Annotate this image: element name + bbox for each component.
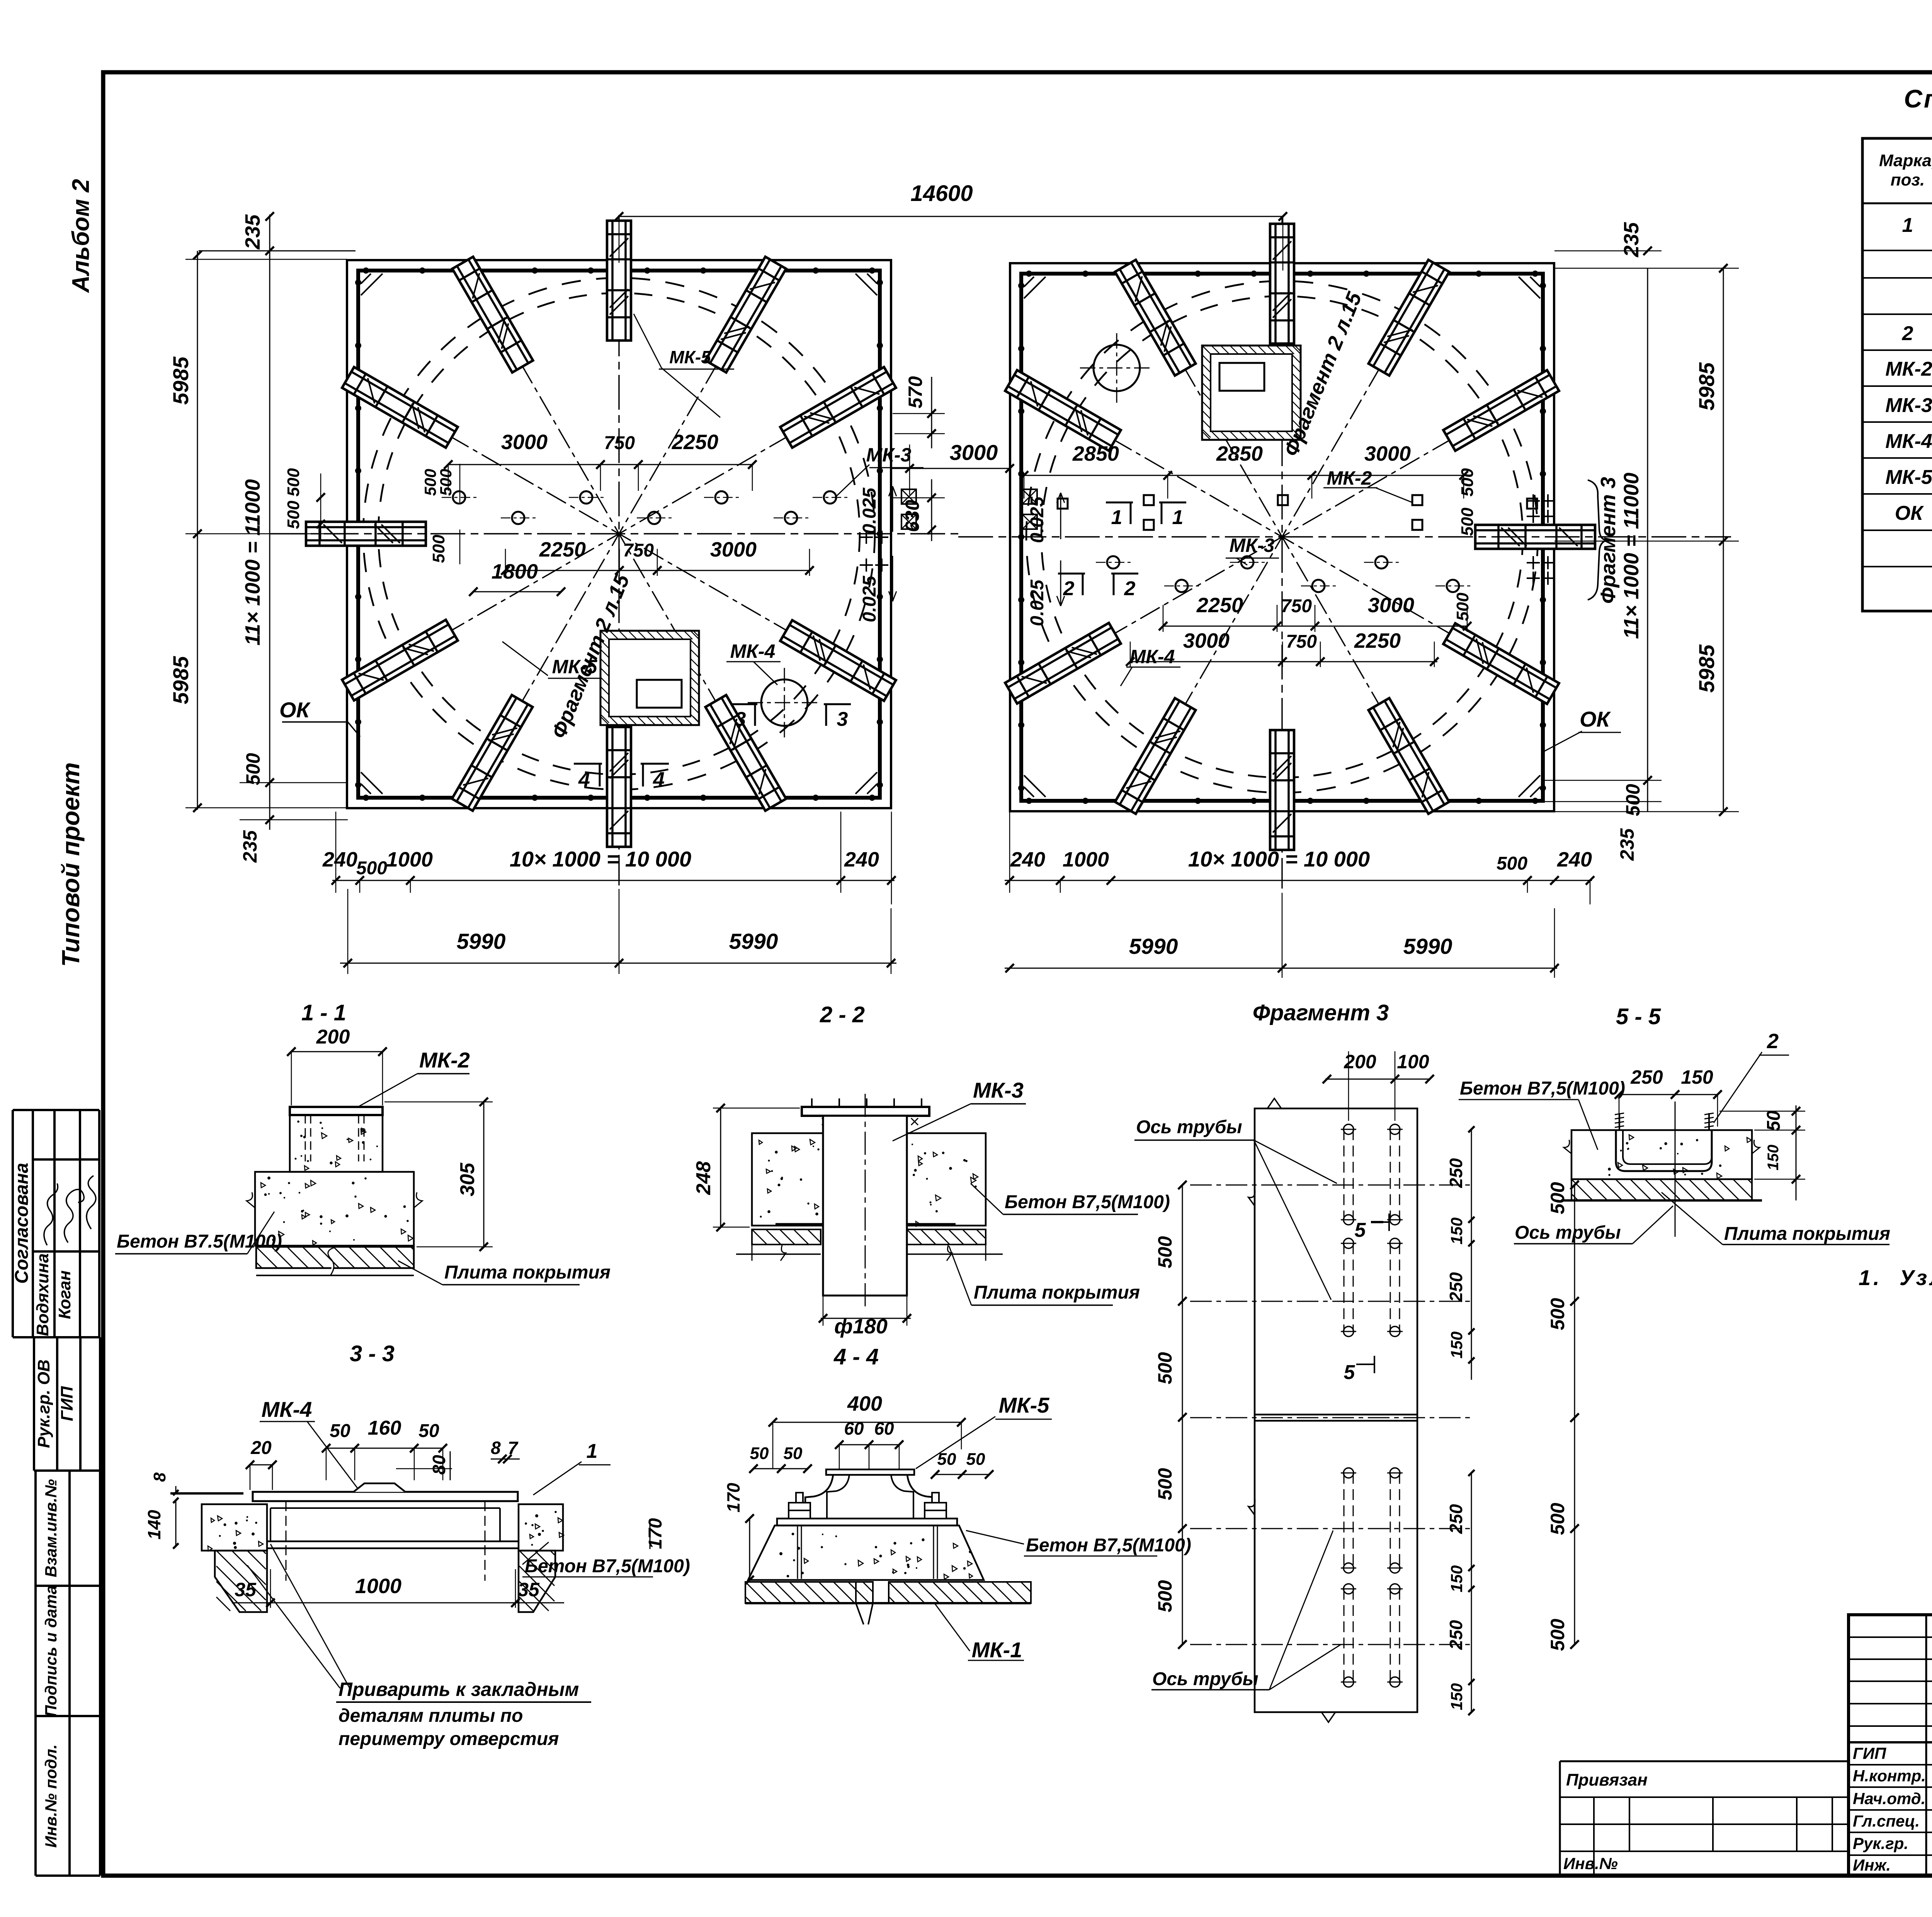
plan2: rail post МК-5 #10 xyxy=(1115,260,1196,375)
svg-text:500: 500 xyxy=(1154,1468,1176,1500)
svg-text:Фрагмент 3: Фрагмент 3 xyxy=(1597,477,1620,604)
plan2 section marks 2|2 xyxy=(1058,573,1085,575)
svg-text:500: 500 xyxy=(1458,468,1477,497)
section 3-3 top assembly plates xyxy=(253,1492,518,1501)
plan2: rail post МК-5 #4 xyxy=(1369,698,1449,814)
svg-text:500: 500 xyxy=(1453,592,1472,621)
plan1: rail post МК-5 #6 xyxy=(306,522,426,546)
svg-text:1: 1 xyxy=(1172,506,1184,529)
plan1: rail post МК-5 #5 xyxy=(342,367,457,448)
fragment 3 far dim 500 chain xyxy=(1574,1185,1575,1645)
svg-text:2250: 2250 xyxy=(672,431,718,454)
svg-text:235: 235 xyxy=(241,214,264,250)
svg-text:МК-3: МК-3 xyxy=(1230,535,1275,556)
svg-text:100: 100 xyxy=(1397,1051,1429,1073)
svg-text:500: 500 xyxy=(242,753,264,785)
between plans dim 570 xyxy=(931,377,932,448)
plan2: outer dashed circle xyxy=(1026,281,1538,793)
svg-text:Водяхина: Водяхина xyxy=(33,1253,52,1336)
svg-text:Взам.инв.№: Взам.инв.№ xyxy=(42,1479,60,1577)
plan2: outer square outline xyxy=(1010,263,1554,811)
fragment 3 bolt columns xyxy=(1344,1129,1345,1220)
svg-text:170: 170 xyxy=(723,1483,743,1512)
plan1 bottom dim chain 240/500/1000/10x1000 xyxy=(332,880,895,881)
section 2-2 left concrete block xyxy=(752,1133,823,1226)
plan2: rail post МК-5 #2 xyxy=(1115,698,1196,814)
plan1 top-left dim 235 xyxy=(199,250,355,252)
svg-text:500: 500 xyxy=(437,469,455,496)
svg-text:5990: 5990 xyxy=(457,929,506,954)
svg-text:5: 5 xyxy=(1344,1361,1355,1384)
fragment 3 left dim chain 500s xyxy=(1182,1185,1183,1645)
plan2: inner dashed circle xyxy=(1041,296,1523,778)
plan1 left dim line 5985/5985 xyxy=(197,251,198,810)
plan2 lower dim row 3000/750/2250 xyxy=(1130,661,1437,662)
svg-text:4: 4 xyxy=(653,768,665,791)
plan1 section marks 3|3 xyxy=(730,703,757,705)
svg-text:170: 170 xyxy=(645,1518,666,1549)
plan1 left dim 11x1000=11000 xyxy=(269,251,270,830)
svg-text:МК-3: МК-3 xyxy=(866,444,912,466)
plan1 horizontal centerline axis xyxy=(270,533,958,534)
plan1: МК-4 manhole circle xyxy=(761,679,808,726)
section 4-4 dim 400 xyxy=(773,1422,961,1423)
section 2-2 slab strips hatched xyxy=(752,1229,821,1245)
svg-text:35: 35 xyxy=(235,1579,257,1600)
svg-text:1000: 1000 xyxy=(355,1575,401,1598)
section 1-1 base break marks xyxy=(247,1192,255,1208)
svg-text:Инж.: Инж. xyxy=(1853,1856,1891,1874)
section 4-4 dim 60 60 xyxy=(839,1444,899,1445)
section 2-2 embedded plates xyxy=(776,1223,823,1226)
svg-text:1: 1 xyxy=(1111,506,1122,529)
section 3-3 anchor dashes xyxy=(286,1501,287,1581)
svg-text:500: 500 xyxy=(356,858,387,878)
svg-text:Инв.№: Инв.№ xyxy=(1563,1854,1618,1873)
plan1: rail post МК-5 #7 xyxy=(342,620,457,701)
svg-text:3000: 3000 xyxy=(950,440,998,465)
svg-text:500: 500 xyxy=(429,535,448,563)
svg-text:МК-2: МК-2 xyxy=(1885,358,1932,380)
svg-text:Альбом 2: Альбом 2 xyxy=(68,179,94,293)
plan1: rail post МК-5 #11 xyxy=(780,620,896,701)
fragment 3 break marks xyxy=(1267,1098,1281,1108)
svg-text:МК-4: МК-4 xyxy=(1130,646,1175,667)
between plans boxed-cross anchors xyxy=(901,489,916,504)
svg-text:250: 250 xyxy=(1446,1504,1466,1534)
section 2-2 right concrete block xyxy=(907,1133,986,1226)
fragment 3 beam strip xyxy=(1255,1108,1417,1712)
svg-text:Рук.гр. ОВ: Рук.гр. ОВ xyxy=(34,1359,53,1448)
plan1: inner square (roof slab edge) xyxy=(358,271,880,798)
svg-text:Типовой проект: Типовой проект xyxy=(57,762,85,967)
section 1-1 anchor bolt slots xyxy=(305,1115,306,1161)
svg-text:Нач.отд.: Нач.отд. xyxy=(1853,1789,1925,1808)
section 3-3 right concrete + pier xyxy=(519,1504,563,1551)
fragment 3 right dim chain 250/150 xyxy=(1471,1129,1472,1380)
svg-text:150: 150 xyxy=(1765,1145,1782,1171)
svg-text:Плита покрытия: Плита покрытия xyxy=(1724,1224,1890,1244)
plan2 bottom dim 5990+5990 xyxy=(1005,968,1557,969)
svg-text:3000: 3000 xyxy=(1364,442,1411,465)
svg-text:3000: 3000 xyxy=(501,431,548,454)
plan2 right dim 5985/5985 xyxy=(1723,268,1724,812)
plan2: rail post МК-5 #7 xyxy=(1443,370,1559,451)
svg-text:4: 4 xyxy=(578,768,590,791)
title block attachment mini table xyxy=(1560,1760,1849,1762)
svg-text:160: 160 xyxy=(368,1417,401,1439)
section 3-3 left concrete + pier xyxy=(202,1504,267,1551)
svg-text:Фрагмент 3: Фрагмент 3 xyxy=(1253,1000,1389,1025)
section 3-3 bottom dims 35/1000/35 xyxy=(232,1602,564,1604)
plan1: inner dashed circle xyxy=(378,293,860,775)
svg-text:50: 50 xyxy=(1764,1110,1784,1131)
svg-text:Марка,: Марка, xyxy=(1879,151,1932,170)
svg-text:МК-5: МК-5 xyxy=(1885,466,1932,489)
svg-text:500: 500 xyxy=(284,468,303,497)
svg-text:2: 2 xyxy=(1767,1030,1779,1053)
svg-text:500: 500 xyxy=(1547,1619,1568,1651)
svg-text:3000: 3000 xyxy=(1183,629,1230,652)
svg-text:200: 200 xyxy=(316,1026,350,1048)
fragment 3 axis lines xyxy=(1190,1185,1471,1186)
plan2: rail post МК-5 #6 xyxy=(1475,525,1595,549)
svg-text:2850: 2850 xyxy=(1216,442,1263,465)
fragment 3 mid joint xyxy=(1255,1414,1417,1416)
svg-text:8: 8 xyxy=(150,1472,169,1482)
section 4-4 dims 50 50 left xyxy=(753,1468,808,1469)
svg-text:60: 60 xyxy=(874,1418,894,1439)
section 1-1 upper concrete block xyxy=(290,1115,383,1172)
svg-text:750: 750 xyxy=(1281,596,1312,616)
svg-text:ф180: ф180 xyxy=(834,1315,888,1338)
plan2: МК-2 anchor squares xyxy=(1058,499,1068,509)
svg-text:7: 7 xyxy=(508,1438,519,1458)
plan2: rail post МК-5 #5 xyxy=(1443,623,1559,704)
plan2: hatched roof opening frame xyxy=(1202,346,1301,440)
plan2 lower dim row 2250/750/3000 xyxy=(1163,626,1468,627)
section 4-4 channel МК-5 profile xyxy=(826,1469,914,1475)
section 1-1 top plate МК-2 xyxy=(290,1107,383,1115)
plan2: rail post МК-5 #9 xyxy=(1270,224,1294,344)
svg-text:поз.: поз. xyxy=(1891,170,1925,189)
svg-text:МК-4: МК-4 xyxy=(730,640,776,662)
section 4-4 slab hatched band xyxy=(745,1582,873,1603)
plan2 section marks 1|1 xyxy=(1106,502,1133,504)
section 4-4 concrete pedestal xyxy=(748,1525,984,1580)
svg-text:Ось трубы: Ось трубы xyxy=(1152,1669,1259,1689)
svg-text:ОК: ОК xyxy=(1895,502,1924,524)
svg-text:0.025: 0.025 xyxy=(1027,579,1048,626)
svg-text:МК-1: МК-1 xyxy=(972,1638,1022,1662)
svg-text:250: 250 xyxy=(1446,1158,1466,1188)
svg-text:2250: 2250 xyxy=(1196,594,1243,617)
plan2: opening inner box xyxy=(1219,363,1264,391)
plan1: rail post МК-5 #1 xyxy=(780,367,896,448)
svg-text:1 - 1: 1 - 1 xyxy=(301,1000,346,1025)
plan1: outer dashed circle xyxy=(363,278,875,790)
svg-text:МК-5: МК-5 xyxy=(999,1393,1050,1417)
svg-text:235: 235 xyxy=(1616,828,1638,861)
svg-text:0.025: 0.025 xyxy=(1027,496,1048,543)
svg-text:1. Узлы ограждения должны: 1. Узлы ограждения должны быть хорошо пр… xyxy=(1859,1265,1932,1290)
section 5-5 right dims 50 150 xyxy=(1796,1105,1797,1200)
svg-text:Ось трубы: Ось трубы xyxy=(1515,1222,1621,1243)
fragment 3 top dims 200 100 xyxy=(1325,1079,1430,1080)
plan1: outer square outline xyxy=(347,260,891,808)
section 5-5 anchor bolt threads xyxy=(1619,1113,1620,1130)
svg-text:1000: 1000 xyxy=(1063,848,1109,871)
svg-text:60: 60 xyxy=(844,1418,864,1439)
svg-text:Бетон В7.5(М100): Бетон В7.5(М100) xyxy=(117,1231,282,1252)
svg-text:4 - 4: 4 - 4 xyxy=(833,1344,879,1369)
margin approval table block xyxy=(13,1109,99,1111)
plan1: hatched roof opening frame xyxy=(600,631,699,725)
svg-text:Ось трубы: Ось трубы xyxy=(1136,1117,1242,1137)
svg-text:Рук.гр.: Рук.гр. xyxy=(1853,1834,1908,1852)
svg-text:1: 1 xyxy=(587,1440,598,1462)
svg-text:Бетон В7,5(М100): Бетон В7,5(М100) xyxy=(525,1556,690,1577)
svg-text:2 - 2: 2 - 2 xyxy=(820,1002,865,1027)
svg-text:250: 250 xyxy=(1446,1272,1466,1302)
section 2-2 top plate with bolts and weld marks xyxy=(802,1107,929,1116)
svg-text:5990: 5990 xyxy=(1129,934,1178,959)
section 1-1 dim 305 xyxy=(483,1102,485,1247)
svg-text:2250: 2250 xyxy=(539,538,586,561)
svg-text:Коган: Коган xyxy=(55,1270,74,1319)
specification table grid xyxy=(1862,138,1932,611)
margin block Взам.инв. / Подпись / Инв. xyxy=(36,1469,100,1472)
section 5-5 slab hatched xyxy=(1571,1179,1752,1200)
svg-text:500: 500 xyxy=(1154,1352,1176,1384)
svg-text:Спецификация к плану кровли: Спецификация к плану кровли xyxy=(1904,84,1932,113)
section 5-5 dims 250 150 xyxy=(1619,1094,1718,1095)
fragment 3 section marks 5 xyxy=(1371,1221,1389,1223)
svg-text:200: 200 xyxy=(1344,1051,1376,1073)
plan1: opening inner box xyxy=(637,680,682,708)
svg-text:3000: 3000 xyxy=(1368,594,1414,617)
section 2-2 dim 248 xyxy=(720,1108,721,1227)
svg-text:500: 500 xyxy=(1154,1236,1176,1268)
svg-text:2250: 2250 xyxy=(1354,629,1401,652)
svg-text:50: 50 xyxy=(418,1421,439,1441)
svg-text:Согласована: Согласована xyxy=(12,1163,32,1284)
svg-text:МК-5: МК-5 xyxy=(669,347,711,367)
svg-text:150: 150 xyxy=(1447,1565,1466,1592)
plan1: rail post МК-5 #10 xyxy=(706,695,786,810)
svg-text:750: 750 xyxy=(1286,632,1317,652)
svg-text:1: 1 xyxy=(1902,214,1913,237)
svg-text:240: 240 xyxy=(1557,848,1592,871)
section 5-5 concrete band with U channel xyxy=(1571,1130,1752,1179)
title block outer frame xyxy=(1849,1615,1932,1876)
svg-text:5985: 5985 xyxy=(1694,644,1719,693)
svg-text:570: 570 xyxy=(905,376,926,409)
svg-text:240: 240 xyxy=(844,848,879,871)
svg-text:500: 500 xyxy=(1547,1182,1568,1214)
plan2: centerline axes and radial dash-dot diameters xyxy=(1043,399,1521,675)
svg-text:Н.контр.: Н.контр. xyxy=(1853,1767,1926,1785)
plan1: border fastener dots xyxy=(363,267,369,274)
plan1 inner dim row 2250/750/3000 xyxy=(505,570,811,571)
svg-text:250: 250 xyxy=(1630,1066,1663,1088)
section 1-1 base concrete block xyxy=(255,1172,414,1246)
svg-text:50: 50 xyxy=(330,1421,350,1441)
plan2 horizontal centerline axis xyxy=(958,536,1731,537)
svg-text:ОК: ОК xyxy=(1580,707,1611,731)
svg-text:150: 150 xyxy=(1447,1683,1466,1710)
svg-text:150: 150 xyxy=(1447,1331,1466,1359)
svg-text:Бетон В7,5(М100): Бетон В7,5(М100) xyxy=(1026,1535,1191,1556)
plan2: rail post МК-5 #11 xyxy=(1005,370,1121,451)
plan2: rail post МК-5 #1 xyxy=(1005,623,1121,704)
section 5-5 axis line xyxy=(1675,1102,1676,1237)
svg-text:0.025: 0.025 xyxy=(859,487,880,534)
svg-text:Бетон В7,5(М100): Бетон В7,5(М100) xyxy=(1005,1192,1170,1212)
svg-text:50: 50 xyxy=(784,1444,803,1463)
svg-text:500: 500 xyxy=(1547,1503,1568,1535)
svg-text:5985: 5985 xyxy=(1694,362,1719,410)
svg-text:3000: 3000 xyxy=(710,538,757,561)
svg-text:2: 2 xyxy=(1124,577,1136,600)
svg-text:5985: 5985 xyxy=(168,356,193,405)
svg-text:Плита покрытия: Плита покрытия xyxy=(444,1262,611,1283)
section 4-4 base plate xyxy=(777,1519,957,1525)
plan1: corner hatch ticks xyxy=(361,274,371,284)
svg-text:Гл.спец.: Гл.спец. xyxy=(1853,1812,1920,1830)
svg-text:Плита покрытия: Плита покрытия xyxy=(974,1282,1140,1303)
plan1 dim 1800 at left bar xyxy=(473,591,561,592)
svg-text:МК-4: МК-4 xyxy=(1885,430,1932,453)
plan1: rail post МК-5 #3 xyxy=(607,221,631,340)
plan2: inner square (roof slab edge) xyxy=(1021,274,1543,801)
svg-text:150: 150 xyxy=(1447,1217,1466,1245)
plan1: rail post МК-5 #8 xyxy=(452,695,533,810)
svg-text:МК-3: МК-3 xyxy=(1885,394,1932,417)
svg-text:ГИП: ГИП xyxy=(58,1386,77,1422)
section 4-4 slab joint funnels xyxy=(856,1582,864,1624)
svg-text:10× 1000 = 10 000: 10× 1000 = 10 000 xyxy=(510,847,691,871)
svg-text:248: 248 xyxy=(692,1161,715,1195)
svg-text:11× 1000 = 11000: 11× 1000 = 11000 xyxy=(241,479,264,645)
section 4-4 anchor bolts xyxy=(789,1503,810,1510)
svg-text:50: 50 xyxy=(966,1450,985,1469)
svg-text:500: 500 xyxy=(1154,1580,1176,1612)
plan1 bottom dim 5990+5990 xyxy=(340,963,896,964)
plan1: rail post МК-5 #4 xyxy=(452,257,533,372)
section 3-3 dim 170 right xyxy=(650,1519,651,1549)
svg-text:240: 240 xyxy=(1010,848,1045,871)
section 3-3 dim 80 rotated xyxy=(450,1451,451,1480)
svg-text:МК-2: МК-2 xyxy=(419,1048,470,1072)
section 1-1 dim 200 xyxy=(291,1051,383,1052)
margin signature squiggles xyxy=(44,1183,58,1245)
svg-text:2850: 2850 xyxy=(1072,442,1119,465)
plan1 inner dim row 3000/750/2250 xyxy=(448,464,753,465)
top dimension 14600 between plan centers xyxy=(619,216,1283,217)
svg-text:630: 630 xyxy=(901,500,923,532)
svg-text:Приварить к закладным: Приварить к закладным xyxy=(338,1679,579,1700)
plan2: rail post МК-5 #8 xyxy=(1369,260,1449,375)
svg-text:750: 750 xyxy=(623,540,654,561)
svg-text:5 - 5: 5 - 5 xyxy=(1616,1004,1661,1029)
svg-text:500: 500 xyxy=(1458,507,1477,536)
svg-text:1800: 1800 xyxy=(492,560,538,583)
between plans dim 3000 xyxy=(891,468,1010,469)
svg-text:20: 20 xyxy=(250,1438,272,1458)
plan2: rail post МК-5 #3 xyxy=(1270,730,1294,850)
svg-text:МК-3: МК-3 xyxy=(973,1078,1024,1102)
section 5-5 break marks xyxy=(1564,1140,1571,1154)
plan1: edge bolt plus marks xyxy=(860,536,873,538)
plan2 right brace and label Фрагмент 3 xyxy=(1588,480,1608,600)
svg-text:5: 5 xyxy=(1355,1219,1366,1241)
plan1: centerline axes and radial dash-dot diameters xyxy=(380,396,858,672)
svg-text:5990: 5990 xyxy=(729,929,778,954)
svg-text:ОК: ОК xyxy=(279,698,311,722)
svg-text:750: 750 xyxy=(604,433,635,453)
svg-text:0.025: 0.025 xyxy=(859,575,880,622)
svg-text:400: 400 xyxy=(847,1392,882,1415)
section 4-4 dim 170 xyxy=(749,1519,750,1580)
svg-text:500: 500 xyxy=(1547,1298,1568,1330)
svg-text:140: 140 xyxy=(144,1510,164,1539)
section 3-3 dim 20 xyxy=(250,1464,272,1466)
plan1: rail post МК-5 #2 xyxy=(706,257,786,372)
svg-text:11× 1000 = 11000: 11× 1000 = 11000 xyxy=(1620,473,1643,639)
section 3-3 pit walls and bottom plate xyxy=(270,1508,271,1541)
margin block Рук.гр. ОВ / ГИП xyxy=(34,1336,100,1338)
svg-text:1000: 1000 xyxy=(386,848,433,871)
svg-text:Привязан: Привязан xyxy=(1566,1771,1648,1789)
svg-text:250: 250 xyxy=(1446,1620,1466,1650)
section 3-3 left stray plate xyxy=(170,1492,243,1495)
plan2: corner hatch ticks xyxy=(1024,277,1034,287)
svg-text:МК-4: МК-4 xyxy=(262,1397,312,1422)
between plans dim 630 xyxy=(931,479,932,541)
section 1-1 slab hatched xyxy=(256,1247,414,1268)
svg-text:235: 235 xyxy=(239,830,261,863)
section 2-2 slab bottom lines xyxy=(736,1253,821,1255)
title block left grid xyxy=(1925,1615,1927,1876)
plan2 top dim row 2850/2850/3000 xyxy=(1024,475,1464,476)
svg-text:35: 35 xyxy=(518,1579,540,1600)
svg-text:8: 8 xyxy=(491,1438,501,1458)
svg-text:14600: 14600 xyxy=(910,181,973,206)
plan1 bottom-left small dims 500 235 xyxy=(240,782,348,783)
svg-text:Подпись и дата: Подпись и дата xyxy=(42,1585,60,1717)
svg-text:МК-2: МК-2 xyxy=(1327,467,1372,489)
plan1 section marks 4|4 xyxy=(574,763,602,765)
plan1: rail post МК-5 #9 xyxy=(607,727,631,847)
svg-text:Бетон В7,5(М100): Бетон В7,5(М100) xyxy=(1460,1078,1625,1099)
section 3-3 dims 50/160/50 xyxy=(326,1448,443,1449)
svg-text:ГИП: ГИП xyxy=(1853,1744,1886,1762)
plan2: anchor bolt circles xyxy=(1107,556,1119,569)
section 4-4 dims 50 50 right xyxy=(935,1474,989,1475)
svg-text:150: 150 xyxy=(1681,1066,1713,1088)
svg-text:10× 1000 = 10 000: 10× 1000 = 10 000 xyxy=(1188,847,1370,871)
svg-text:305: 305 xyxy=(456,1163,479,1197)
plan2 bottom dim chain xyxy=(1005,880,1592,881)
section 3-3 note leaders xyxy=(247,1565,340,1688)
svg-text:деталям плиты по: деталям плиты по xyxy=(338,1706,523,1726)
svg-text:3: 3 xyxy=(735,708,746,730)
svg-text:5990: 5990 xyxy=(1403,934,1452,959)
section 2-2 pipe xyxy=(823,1116,907,1296)
svg-text:2: 2 xyxy=(1902,322,1913,345)
svg-text:500: 500 xyxy=(1497,853,1527,874)
